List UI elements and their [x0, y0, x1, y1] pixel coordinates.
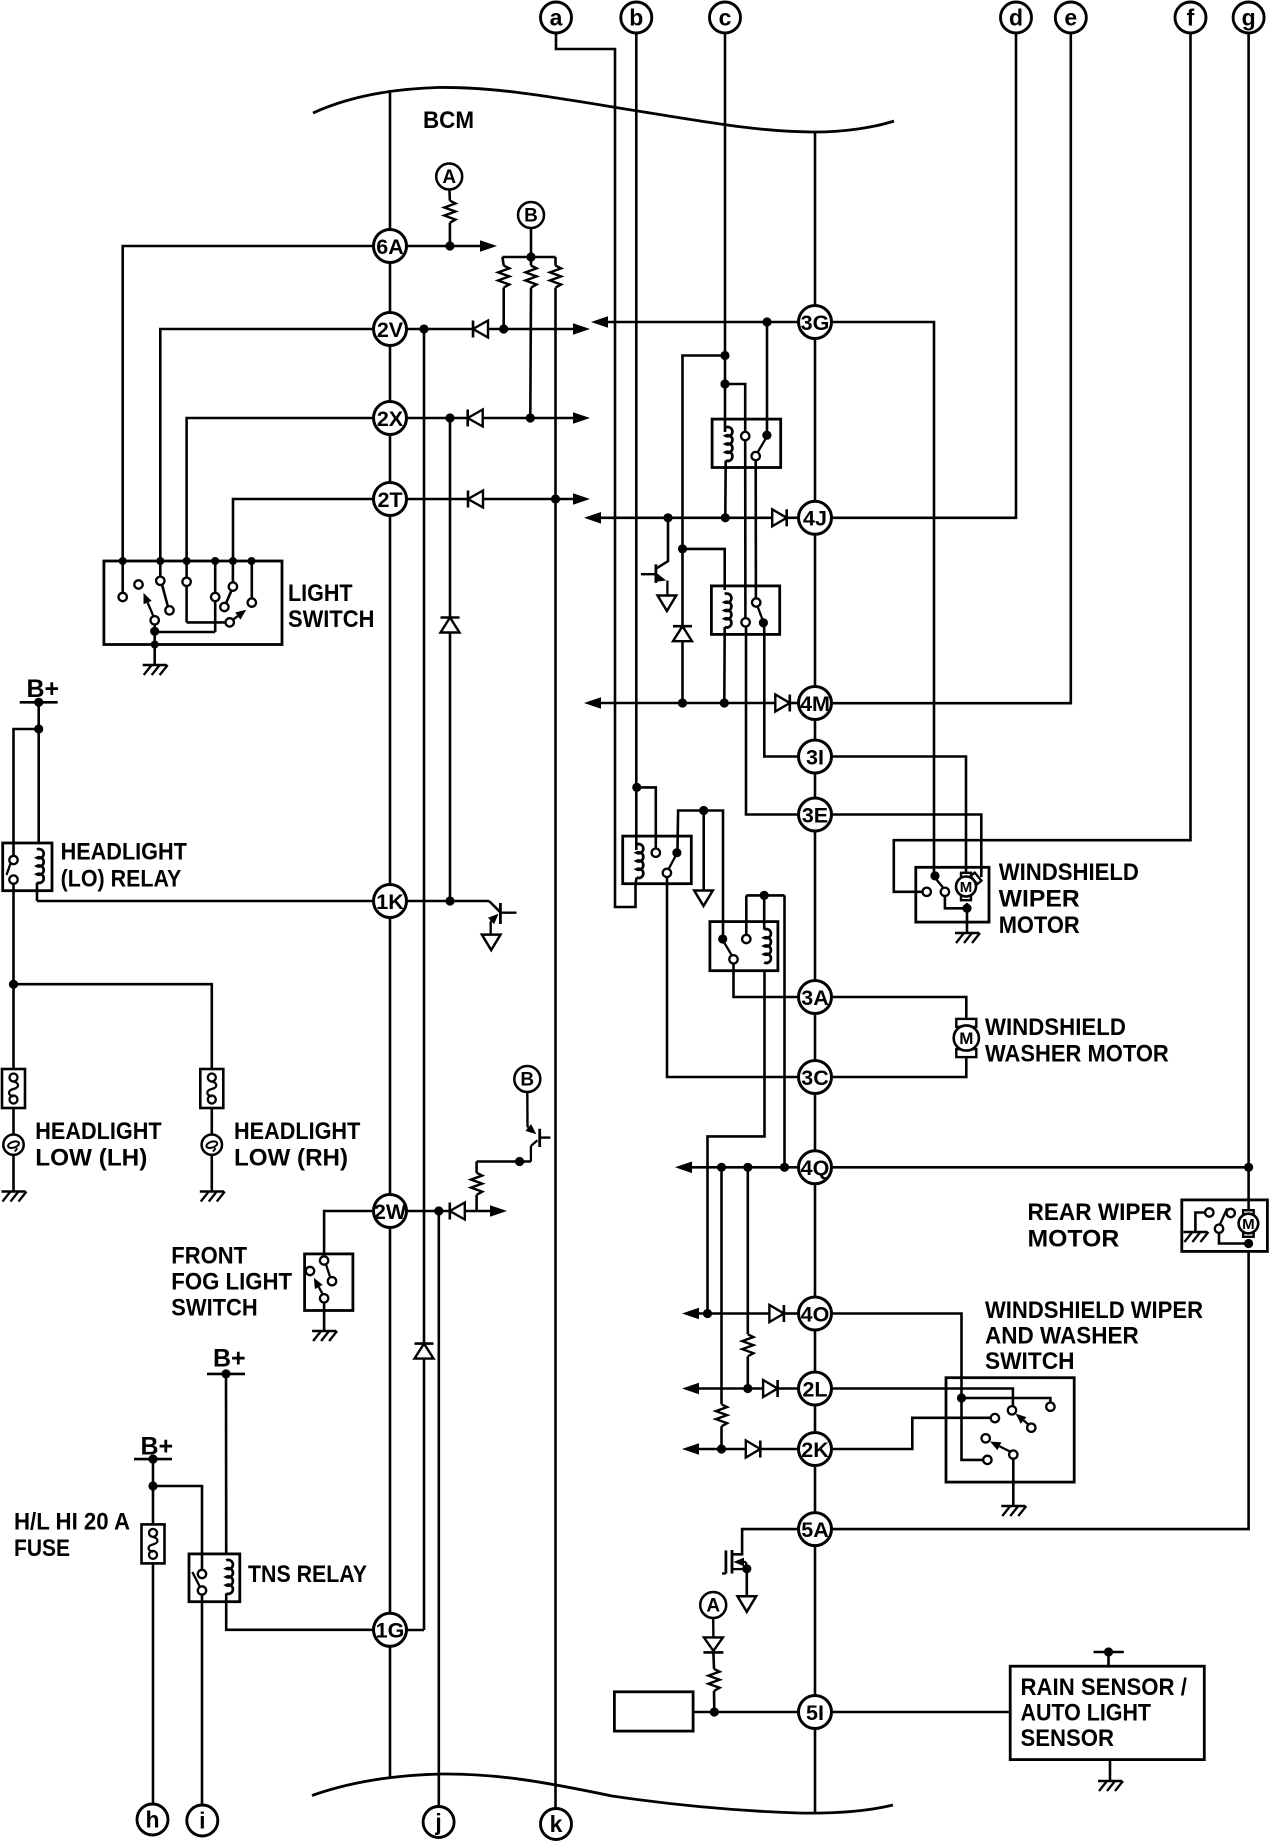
wire: c branch to diode/4M leg: [683, 356, 726, 627]
test point circle A: [436, 164, 462, 190]
junction node 4Q on terminal g line: [1244, 1163, 1253, 1172]
wire: 2V row to light switch pin 2: [160, 329, 374, 561]
svg-text:2K: 2K: [801, 1438, 829, 1462]
wiper switch contact (2K): [991, 1414, 999, 1422]
junction node resistor 2 to 2X: [526, 413, 535, 422]
junction node 2W to terminal j: [434, 1206, 443, 1215]
relay 2 second fixed contact (to 3E): [741, 618, 749, 626]
transistor Q3 (wiper relay driver): [657, 518, 669, 569]
svg-text:2T: 2T: [377, 488, 402, 512]
LH headlight ground: [2, 1190, 26, 1193]
svg-text:1G: 1G: [376, 1619, 405, 1643]
svg-text:M: M: [960, 879, 973, 896]
svg-text:M: M: [1242, 1216, 1255, 1233]
svg-text:3C: 3C: [801, 1066, 828, 1090]
front fog light switch box: [305, 1254, 353, 1311]
diode into 2L: [763, 1380, 778, 1397]
wire: 3C row right to washer motor: [831, 1057, 966, 1077]
junction node headlight feed split: [9, 980, 18, 989]
junction node wiper motor ground leg: [962, 904, 971, 913]
BCM pin 4Q: [799, 1151, 832, 1184]
svg-text:SWITCH: SWITCH: [985, 1348, 1075, 1375]
wiper switch moving contact 1 with arrow: [1024, 1420, 1029, 1424]
diode on 2X-1K branch (cathode up): [441, 616, 460, 619]
washer switch moving contact 2 with arrow: [999, 1446, 1010, 1451]
rear wiper motor M: [1243, 1210, 1254, 1215]
junction node resistor 3 to 2T: [551, 494, 560, 503]
TNS relay box: [189, 1554, 240, 1602]
junction node 3G to relay 1: [762, 317, 771, 326]
headlight low RH bulb: [202, 1135, 222, 1155]
svg-text:3A: 3A: [801, 986, 828, 1010]
junction node relay4 coil branch to 4O: [703, 1309, 712, 1318]
terminal a: [541, 2, 572, 33]
relay 1 box: [712, 419, 781, 467]
wire: branch to RH headlight: [14, 984, 212, 1069]
wire: 3I row right to wiper motor: [831, 757, 966, 873]
terminal b: [621, 2, 652, 33]
svg-text:SWITCH: SWITCH: [171, 1295, 257, 1322]
wire: 3A row right to washer motor: [831, 997, 966, 1019]
wiper motor common contact (from 3G): [930, 871, 939, 880]
transistor Q1 (1K driver): [489, 901, 500, 912]
junction node resistor leg to 2L: [743, 1384, 752, 1393]
arrow on 6A output: [480, 240, 497, 252]
svg-text:LOW (RH): LOW (RH): [234, 1145, 348, 1172]
wire: 2T row right: [406, 498, 468, 501]
relay 3 moving contact: [672, 848, 681, 857]
pull resistor 2 (to 2X): [530, 257, 533, 266]
junction node on Q2 emitter link: [515, 1157, 524, 1166]
wire: relay 3 moving contact up and over to relay 4: [678, 811, 724, 935]
terminal j: [423, 1807, 454, 1838]
wire: 3E row left from relay 2 contact: [746, 626, 799, 815]
junction node 2X branch: [445, 413, 454, 422]
relay 3 fixed contact: [652, 849, 660, 857]
wire: resistor network top bus: [502, 256, 555, 259]
resistor below circle A: [448, 189, 451, 201]
wire: resistor leg x=747.8 (4Q to 2L): [746, 1167, 749, 1334]
windshield wiper and washer switch box: [946, 1378, 1074, 1482]
wire: left end down to fixed contact: [745, 895, 748, 935]
svg-text:MOTOR: MOTOR: [999, 912, 1080, 939]
MOSFET Q4 channel: [731, 1550, 734, 1574]
svg-text:M: M: [959, 1029, 973, 1048]
fog switch link arm: [326, 1264, 330, 1277]
junction node 4O branch inside switch: [957, 1393, 966, 1402]
relay 4 coil: [764, 929, 771, 963]
BCM pin 4M: [799, 687, 832, 720]
junction node c-branch diode to 4M: [678, 698, 687, 707]
relay 4 box: [710, 922, 778, 971]
svg-text:2V: 2V: [377, 318, 404, 342]
BCM pin 2V: [374, 313, 407, 346]
wire: fuse to terminal h: [152, 1564, 155, 1804]
wire: LH bulb to ground: [12, 1155, 15, 1192]
wire: 2L row right into wiper-washer switch: [831, 1389, 1013, 1407]
relay 3 box: [623, 836, 692, 884]
wire: TNS contact 2 to terminal i: [201, 1595, 204, 1805]
MOSFET Q4 source with body arrow: [744, 1561, 746, 1563]
relay 4 moving contact: [718, 934, 727, 943]
light switch contact (floating, arm target): [134, 580, 142, 588]
wire: B+ down to fuse: [152, 1459, 155, 1524]
resistor from Q2 emitter to 2W row: [475, 1195, 478, 1211]
wire: 2V row right: [406, 328, 473, 331]
svg-text:FOG LIGHT: FOG LIGHT: [171, 1269, 292, 1296]
relay 2 fixed contact (from relay1 armature): [752, 598, 760, 606]
wire: 3G row left with arrow: [601, 321, 799, 324]
washer switch contact upper-left: [982, 1434, 990, 1442]
svg-text:g: g: [1242, 5, 1256, 31]
svg-text:5I: 5I: [806, 1701, 824, 1725]
svg-text:B+: B+: [27, 675, 60, 703]
rain sensor ground: [1098, 1780, 1122, 1783]
arrow on 2W output: [490, 1205, 507, 1217]
wire: branch to relay 2 coil: [683, 549, 725, 590]
wire: 5I row right to rain sensor: [831, 1711, 1010, 1714]
wire: 5A row right to rear wiper motor: [831, 1251, 1249, 1529]
wire: relay 4 coil top node: [763, 895, 766, 929]
svg-text:WIPER: WIPER: [999, 886, 1080, 913]
svg-text:d: d: [1009, 5, 1023, 31]
svg-text:c: c: [719, 5, 732, 31]
wire: motor bottom to ground: [966, 903, 969, 933]
wire: resistor leg x=721.5 (4Q to 2K): [720, 1167, 723, 1404]
wire: 3E row right to wiper motor brush: [831, 815, 981, 878]
wire: branch to relay contact: [14, 729, 39, 856]
light switch contact 6: [248, 598, 256, 606]
fog switch bottom contact: [320, 1294, 328, 1302]
light switch case ground node: [151, 641, 159, 649]
BCM pin 5A: [799, 1513, 832, 1546]
relay 3 armature contact (to 3C): [663, 869, 671, 877]
svg-text:AND WASHER: AND WASHER: [985, 1323, 1139, 1350]
diode on 2T row (cathode left): [467, 491, 470, 508]
headlight relay contact 2: [9, 875, 17, 883]
relay 2 armature arm: [758, 606, 763, 619]
wire: fuse to RH bulb: [211, 1108, 214, 1135]
junction node resistor 1 to 2V: [499, 324, 508, 333]
wire: relay 2 moving contact to 3I: [763, 627, 766, 635]
terminal a lead wire: [556, 33, 636, 907]
svg-text:AUTO LIGHT: AUTO LIGHT: [1021, 1699, 1152, 1726]
relay 2 box: [711, 586, 779, 635]
light switch contact 5 and arm: [232, 561, 235, 582]
BCM pin 3E: [799, 798, 832, 831]
relay 1 coil: [726, 427, 733, 461]
wire: relay 2 coil bottom to 4M: [723, 627, 726, 703]
svg-text:FRONT: FRONT: [171, 1243, 247, 1270]
test point circle B (lower): [514, 1066, 540, 1092]
BCM pin 1G: [374, 1613, 407, 1646]
svg-text:5A: 5A: [801, 1518, 828, 1542]
BCM pin 1K: [374, 885, 407, 918]
wire: 2V branch down to 1G (with diode): [423, 329, 426, 1344]
TNS relay contact 2: [198, 1586, 206, 1594]
junction node relay1 coil to 4J: [721, 513, 730, 522]
wire: terminal j vertical: [437, 1211, 440, 1807]
terminal i: [187, 1805, 218, 1836]
light switch arm 2 with arrow: [233, 616, 238, 620]
svg-text:SWITCH: SWITCH: [288, 606, 374, 633]
svg-text:f: f: [1187, 5, 1195, 31]
light switch contact 3 and link to arm 2: [185, 561, 188, 578]
wire: 4M row left with arrow: [594, 702, 775, 705]
arrow on 2V output: [573, 323, 590, 335]
wire: c branch to relay contacts chain: [725, 384, 745, 432]
test point circle A (lower) with diode and resistor: [712, 1618, 715, 1637]
BCM module top boundary (wavy line): [313, 87, 894, 132]
junction node c to right branch: [720, 379, 729, 388]
svg-text:e: e: [1064, 5, 1077, 31]
wiper switch ground: [1001, 1505, 1025, 1508]
light switch ground: [143, 664, 167, 667]
wire: 2X row right: [406, 417, 468, 420]
junction node 2X branch to 1K: [445, 896, 454, 905]
relay 3 coil: [637, 844, 644, 878]
wire: moving contact to motor minus: [1219, 1233, 1249, 1244]
BCM module bottom boundary (wavy line): [312, 1774, 893, 1813]
wire: relay 1 armature down to relay 2: [754, 460, 757, 598]
TNS relay contact 1: [198, 1570, 206, 1578]
washer switch fixed contact: [1046, 1403, 1054, 1411]
relay 4 armature contact (to 3A): [729, 955, 737, 963]
rear wiper motor bottom node: [1244, 1239, 1253, 1248]
svg-text:(LO) RELAY: (LO) RELAY: [61, 865, 182, 892]
wire: 3I row left from relay 2: [764, 634, 799, 756]
junction node resistor leg to 2K: [717, 1444, 726, 1453]
svg-text:6A: 6A: [376, 235, 403, 259]
diode on 2V-1G branch (cathode up): [415, 1342, 434, 1345]
svg-text:B: B: [520, 1070, 534, 1091]
wiper motor tilted brush (3E): [971, 873, 982, 885]
BCM pin 6A: [374, 230, 407, 263]
svg-text:a: a: [550, 5, 563, 31]
battery terminal B+ (TNS coil): [207, 1373, 245, 1376]
relay 1 armature arm: [758, 439, 766, 453]
wire: 3G row right down to wiper motor: [831, 322, 934, 872]
svg-text:WINDSHIELD: WINDSHIELD: [985, 1014, 1126, 1041]
junction node 2V branch: [419, 324, 428, 333]
wire: 6A row to light switch pin 1: [123, 246, 374, 561]
BCM pin 4J: [799, 501, 832, 534]
svg-text:k: k: [550, 1811, 563, 1837]
light switch arm 2 pivot: [226, 618, 234, 626]
wiper motor M: [961, 873, 971, 878]
diode into 4M: [775, 695, 790, 712]
fog switch ground: [312, 1330, 336, 1333]
test point circle B lead into Q2 base with arrow: [526, 1092, 529, 1127]
headlight relay contact 1: [9, 856, 17, 864]
svg-text:HEADLIGHT: HEADLIGHT: [35, 1118, 162, 1145]
BCM pin 2T: [374, 483, 407, 516]
terminal f: [1175, 2, 1206, 33]
relay 4 fixed contact: [742, 935, 750, 943]
light switch arm 1 pivot contact: [153, 624, 156, 644]
wire: 2T row to light switch pin 5: [233, 499, 374, 561]
wire: fog switch to ground: [323, 1303, 326, 1332]
wire: resistor 3 / 2T / terminal k vertical: [554, 288, 557, 1808]
wire: 4Q row left with arrow: [685, 1166, 799, 1169]
diode into 2K: [746, 1441, 761, 1458]
diode into 4O: [769, 1305, 784, 1322]
terminal b lead wire (to relay coil): [635, 33, 638, 850]
wire: main right BCM pin bus x=815: [814, 131, 817, 1812]
wire: relay coil bottom to 1K row: [36, 883, 39, 902]
svg-text:4O: 4O: [801, 1302, 830, 1326]
fog switch top contact: [320, 1256, 328, 1264]
light switch internal ground bus: [150, 627, 159, 636]
fuse for RH headlight: [200, 1069, 223, 1108]
ground arrow on relay3/relay4 link: [694, 891, 713, 907]
relay 1 fixed contact: [741, 432, 749, 440]
wire: 2L row left with arrow: [692, 1387, 763, 1390]
wiper low contact: [983, 1456, 991, 1464]
wire: 4J row left with arrow: [594, 516, 772, 519]
BCM pin 2L: [799, 1372, 832, 1405]
RH headlight ground: [200, 1190, 224, 1193]
wiper motor ground: [955, 932, 979, 935]
svg-text:H/L HI 20 A: H/L HI 20 A: [14, 1509, 130, 1536]
junction node on diode leg to relay 2 coil: [678, 544, 687, 553]
wire: relay 4 coil to 4O row: [708, 971, 765, 1314]
junction node at B: [526, 252, 535, 261]
junction node on 6A row: [445, 241, 454, 250]
svg-text:3G: 3G: [801, 311, 830, 335]
rear wiper motor park switch arm: [1220, 1208, 1227, 1224]
svg-text:A: A: [442, 167, 456, 188]
BCM pin 2X: [374, 402, 407, 435]
wire: B+ to headlight relay coil: [37, 702, 40, 843]
wire: 3A row left from relay 4: [734, 963, 800, 997]
wiper motor parked contact (from terminal f): [923, 888, 931, 896]
wire: 4O row right into wiper-washer switch: [831, 1314, 983, 1460]
wire: fuse to LH bulb: [12, 1108, 15, 1135]
fog switch left contact: [306, 1267, 314, 1275]
terminal e: [1055, 2, 1086, 33]
wire: 1K row right: [406, 900, 489, 903]
wire: 3G to relay 1 common contact: [766, 322, 769, 431]
TNS relay coil: [226, 1560, 233, 1594]
svg-text:A: A: [706, 1596, 720, 1617]
wire: 2X branch down to 1K (with diode): [449, 418, 452, 618]
svg-text:FUSE: FUSE: [14, 1535, 70, 1562]
svg-text:BCM: BCM: [423, 107, 474, 134]
svg-text:LIGHT: LIGHT: [288, 580, 353, 607]
BCM pin 3I: [799, 740, 832, 773]
BCM pin 3A: [799, 981, 832, 1014]
arrow on 2X output: [573, 412, 590, 424]
wire: headlight relay coil to 1K: [37, 900, 374, 903]
wiper motor armature arm: [937, 880, 944, 888]
diode into 4J: [772, 509, 787, 526]
light switch contact 4 (pin4): [211, 593, 219, 601]
svg-text:SENSOR: SENSOR: [1021, 1725, 1115, 1752]
svg-text:2W: 2W: [374, 1200, 407, 1224]
rain sensor box: [1010, 1666, 1204, 1759]
diode on 2X row (cathode left): [466, 410, 469, 427]
BCM pin 4O: [799, 1297, 832, 1330]
pull resistor 1 (to 2V): [502, 257, 503, 266]
svg-text:WINDSHIELD: WINDSHIELD: [999, 859, 1139, 886]
BCM pin 3G: [799, 306, 832, 339]
windshield washer motor: [956, 1019, 976, 1027]
svg-text:4J: 4J: [803, 507, 827, 531]
svg-text:h: h: [145, 1807, 159, 1833]
ground arrow below Q4: [738, 1596, 757, 1612]
junction node A-branch to 5I: [710, 1707, 719, 1716]
wire: 2K row right into wiper-washer switch: [831, 1418, 991, 1449]
svg-text:HEADLIGHT: HEADLIGHT: [234, 1118, 361, 1145]
wire: Q2 emitter link: [477, 1160, 531, 1163]
junction node Q4 source: [742, 1564, 751, 1573]
pull resistor 3 (to 2T and terminal k): [554, 257, 557, 266]
diode on 2W row (cathode left): [448, 1203, 451, 1220]
svg-text:j: j: [434, 1809, 441, 1835]
wire: relay1 fixed contact through to relay2 contact: [744, 440, 747, 618]
svg-text:LOW (LH): LOW (LH): [35, 1145, 147, 1172]
fuse for LH headlight: [2, 1069, 25, 1108]
wire: relay 1 coil bottom to 4J: [724, 461, 727, 518]
wire: TNS relay coil to 1G: [226, 1602, 374, 1630]
terminal g lead wire (to rear wiper motor): [1247, 33, 1250, 1209]
light switch pin nodes on box edge: [119, 557, 127, 565]
wire: relay4 node down to 4Q: [783, 895, 786, 1167]
wire: B+ to TNS coil: [225, 1374, 228, 1554]
svg-text:4M: 4M: [800, 692, 830, 716]
junction node 4Q to resistor leg 2: [743, 1163, 752, 1172]
wire: 2W row to front fog light switch: [324, 1211, 374, 1254]
diode on c-branch (cathode up): [673, 625, 692, 628]
wiper motor armature contact: [941, 888, 949, 896]
fog switch right contact: [328, 1277, 336, 1285]
relay 2 moving contact: [759, 618, 768, 627]
wire: relay contact 2 down to headlights: [12, 884, 15, 1069]
relay 1 moving contact from 3G: [762, 431, 771, 440]
relay 1 armature contact: [752, 452, 760, 460]
BCM pin 3C: [799, 1061, 832, 1094]
junction node c to left branch: [720, 351, 729, 360]
junction node to ground arrow: [699, 806, 708, 815]
windshield wiper motor box: [916, 867, 989, 922]
headlight relay coil: [37, 849, 44, 883]
svg-text:3I: 3I: [806, 745, 824, 769]
light switch arm 1 with arrow: [148, 603, 154, 617]
arrow on 2T output: [573, 493, 590, 505]
BCM pin 2K: [799, 1433, 832, 1466]
battery terminal B+ (headlight relay): [20, 701, 58, 704]
wire: 5A row left to MOSFET drain: [732, 1529, 799, 1554]
rain sensor ground lead: [1109, 1760, 1112, 1781]
svg-text:RAIN SENSOR /: RAIN SENSOR /: [1021, 1674, 1188, 1701]
wire: 2K row left with arrow: [692, 1448, 746, 1451]
svg-text:B+: B+: [213, 1345, 246, 1373]
wire: 3C row left from relay 3: [667, 877, 799, 1077]
rear wiper motor moving contact: [1215, 1225, 1223, 1233]
svg-text:WASHER MOTOR: WASHER MOTOR: [985, 1041, 1169, 1068]
terminal g: [1233, 2, 1264, 33]
wire: branch to TNS contact: [153, 1486, 202, 1570]
H/L HI 20 A fuse: [142, 1524, 165, 1563]
junction node relay 4 coil: [760, 891, 769, 900]
diode on 2V row (cathode left): [472, 321, 475, 338]
wiper switch contact (2L): [1008, 1406, 1016, 1414]
junction node B+ branch: [34, 724, 43, 733]
terminal h: [137, 1804, 168, 1835]
ground arrow below Q3: [658, 596, 677, 612]
wire: main left BCM pin bus x=390: [389, 90, 392, 1778]
